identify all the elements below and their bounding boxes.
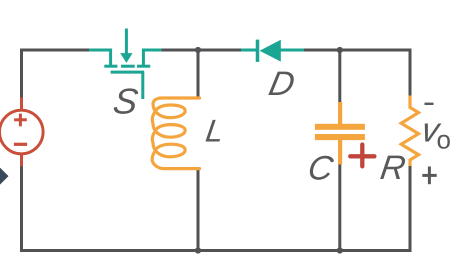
junction: bottom rail / inductor branch (195, 247, 201, 253)
polarity mark: minus at top of output voltage (425, 103, 434, 105)
play-cursor arrow overlay (left edge) (0, 166, 9, 187)
wire: capacitor branch upper segment (338, 50, 341, 103)
voltage source (DC source circle with + and - polarity marks) (0, 97, 43, 166)
wire: source top terminal up and right to MOSFET (top-left corner) (22, 50, 90, 98)
label vo (output voltage) (419, 111, 443, 149)
junction: top rail / inductor branch (195, 47, 201, 53)
svg-text:L: L (204, 113, 227, 149)
polarity mark: plus at bottom of output voltage (422, 167, 436, 185)
inductor L coil (152, 98, 199, 169)
svg-text:R: R (378, 149, 408, 187)
wire: capacitor branch lower segment (338, 164, 341, 250)
svg-text:C: C (306, 149, 336, 187)
label R (378, 149, 408, 187)
junction: bottom rail / capacitor branch (337, 247, 343, 253)
junction: top rail / capacitor branch (337, 47, 343, 53)
wire: inductor branch upper segment (197, 50, 200, 97)
svg-text:o: o (437, 125, 451, 155)
wire: top rail, MOSFET right terminal to diode anode-side (161, 49, 241, 52)
diode D (cathode bar and left-pointing triangle) (241, 40, 304, 62)
wire: source bottom terminal down to bottom rail (20, 166, 23, 250)
resistor R zigzag (401, 96, 418, 167)
label S (111, 81, 141, 122)
wire: resistor branch lower segment (409, 165, 412, 250)
wire: bottom rail (ground return) (22, 249, 411, 251)
wire: top rail, diode cathode side to top-right corner, down to resistor (304, 50, 410, 96)
label C (306, 149, 336, 187)
transistor S (MOSFET switch body: terminals, contact bars, gate) (89, 29, 162, 100)
capacitor C (parallel plates with leads) (315, 102, 365, 165)
svg-text:S: S (111, 81, 141, 122)
svg-text:D: D (266, 65, 299, 103)
label D (266, 65, 299, 103)
label vo subscript o (437, 125, 451, 155)
transistor S gate-drive arrowhead (120, 53, 132, 63)
polarity mark: red + at capacitor (350, 145, 374, 167)
label L (204, 113, 227, 149)
wire: inductor branch lower segment (197, 170, 200, 250)
